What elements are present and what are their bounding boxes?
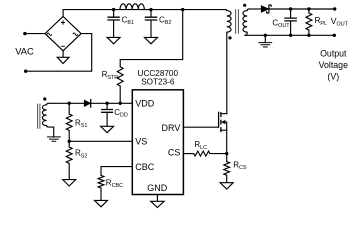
resistor R_STR bbox=[102, 67, 124, 86]
node R_STR bottom junction bbox=[119, 102, 122, 105]
node: startup branch junction on rail bbox=[181, 8, 184, 11]
inductor L1 on top rail bbox=[120, 4, 144, 10]
node R_PL bottom bbox=[307, 34, 310, 37]
capacitor C_B1 bbox=[107, 10, 134, 44]
capacitor C_B2 bbox=[145, 10, 172, 44]
wire diode to output bbox=[269, 8, 335, 10]
node C_OUT top bbox=[289, 7, 292, 10]
VAC terminal bottom + wire to bridge right vertex bbox=[24, 34, 92, 73]
svg-text:VOUT: VOUT bbox=[331, 16, 349, 28]
wire R_LC to CS node bbox=[210, 153, 227, 155]
output ground (earth) bbox=[258, 35, 272, 47]
svg-text:COUT: COUT bbox=[272, 18, 290, 29]
DRV wire to MOSFET gate bbox=[183, 126, 218, 128]
svg-text:Output: Output bbox=[320, 49, 347, 59]
V_OUT terminal top bbox=[333, 7, 336, 10]
V_OUT terminal bottom bbox=[333, 34, 336, 37]
resistor R_CS bbox=[224, 154, 247, 176]
primary bottom wire to MOSFET drain bbox=[226, 33, 228, 113]
wire diode to VDD pin bbox=[91, 102, 133, 104]
node: C_B2 junction bbox=[149, 8, 152, 11]
ground below R_CS bbox=[220, 175, 233, 189]
svg-text:CB2: CB2 bbox=[159, 15, 171, 26]
ground below bridge bbox=[57, 51, 69, 64]
VAC terminal top bbox=[23, 32, 45, 35]
node C_OUT bottom bbox=[289, 34, 292, 37]
svg-text:SOT23-6: SOT23-6 bbox=[141, 78, 175, 87]
resistor R_S1 bbox=[66, 103, 87, 130]
svg-text:RCS: RCS bbox=[233, 160, 247, 171]
svg-text:RPL: RPL bbox=[315, 16, 327, 27]
svg-text:CDD: CDD bbox=[114, 108, 128, 119]
svg-text:GND: GND bbox=[147, 183, 168, 193]
svg-text:(V): (V) bbox=[327, 71, 339, 81]
Output Voltage (V) caption bbox=[319, 49, 348, 82]
svg-text:RLC: RLC bbox=[194, 140, 207, 151]
output diode D_OUT (schottky) bbox=[261, 5, 271, 13]
top rail wire from bridge to transformer bbox=[63, 10, 226, 17]
capacitor C_DD bbox=[101, 103, 128, 132]
svg-text:CB1: CB1 bbox=[122, 15, 134, 26]
aux winding transformer (primary-side bias) bbox=[38, 103, 54, 129]
node C_DD junction bbox=[105, 102, 108, 105]
svg-text:RSTR: RSTR bbox=[102, 70, 119, 81]
wire R_STR to VDD line bbox=[119, 86, 121, 103]
node R_PL top bbox=[307, 7, 310, 10]
resistor R_PL bbox=[306, 9, 327, 30]
svg-text:RS2: RS2 bbox=[75, 149, 87, 160]
MOSFET source wire to CS node bbox=[226, 130, 228, 153]
svg-text:RCBC: RCBC bbox=[106, 178, 123, 189]
node R_S1 junction bbox=[68, 102, 71, 105]
svg-text:DRV: DRV bbox=[162, 123, 181, 133]
svg-text:CS: CS bbox=[168, 147, 181, 157]
resistor R_LC bbox=[194, 140, 210, 156]
secondary top wire to output diode bbox=[249, 8, 261, 10]
resistor R_S2 bbox=[66, 141, 87, 163]
ground below R_S2 bbox=[63, 163, 76, 186]
aux ground (earth) bbox=[47, 127, 61, 141]
CS wire from pin bbox=[183, 153, 193, 155]
node CS junction bbox=[225, 152, 228, 155]
svg-text:Voltage: Voltage bbox=[319, 60, 348, 70]
diode D_DD bbox=[84, 99, 90, 108]
secondary phase dot bbox=[243, 4, 246, 7]
main transformer T1 bbox=[226, 9, 249, 35]
VDD wire: aux winding to diode anode bbox=[49, 102, 85, 104]
node: C_B1 junction bbox=[112, 8, 115, 11]
IC U1 UCC28700 outline bbox=[132, 90, 183, 195]
secondary bottom rail bbox=[245, 34, 334, 36]
svg-text:VAC: VAC bbox=[15, 47, 34, 57]
output ground tap node bbox=[264, 34, 267, 37]
ground below R_CBC bbox=[95, 188, 108, 207]
svg-text:CBC: CBC bbox=[135, 162, 155, 172]
svg-text:VDD: VDD bbox=[135, 99, 155, 109]
bridge rectifier D_BR bbox=[45, 16, 81, 50]
capacitor C_OUT bbox=[272, 9, 297, 35]
wire R_PL to bottom rail bbox=[308, 30, 310, 35]
primary phase dot bbox=[228, 36, 231, 39]
svg-text:RS1: RS1 bbox=[75, 118, 87, 129]
wire R_S1 to VS node bbox=[68, 131, 70, 142]
MOSFET Q1 bbox=[219, 112, 227, 132]
aux winding phase dot bbox=[43, 97, 46, 100]
resistor R_CBC bbox=[98, 175, 123, 189]
svg-text:VS: VS bbox=[135, 137, 147, 147]
wire from rail down-left to R_STR bbox=[120, 10, 183, 67]
IC GND ground bbox=[151, 195, 164, 208]
CBC wire to R_CBC bbox=[101, 167, 132, 176]
VS wire to pin bbox=[69, 140, 132, 142]
node VS junction bbox=[68, 140, 71, 143]
